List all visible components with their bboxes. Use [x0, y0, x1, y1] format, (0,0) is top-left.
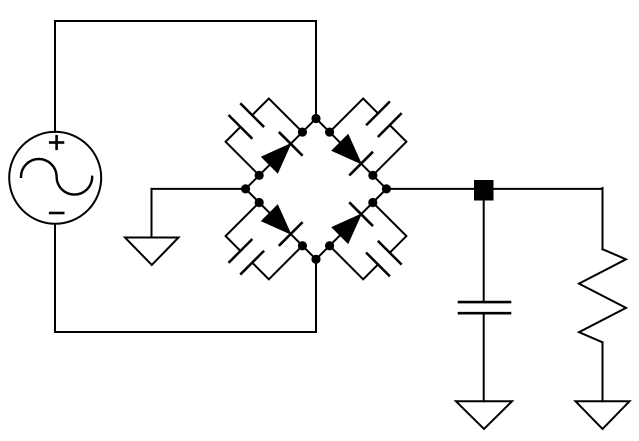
V1 plus polarity mark	[50, 136, 63, 149]
ground: AC return	[125, 238, 179, 266]
junction dot on arm of D3 (near 259.18,202.48)	[255, 198, 264, 207]
wire: filter capacitor to ground	[483, 313, 485, 401]
wire: C3 branch (parallel with D3)	[226, 202, 303, 279]
wire: bridge right node to output rail	[386, 188, 602, 190]
wire: output rail down right side to resistor	[602, 188, 604, 249]
capacitor C3 (snubber across D3)	[229, 240, 263, 274]
wire: bridge arm for D1	[246, 119, 316, 189]
capacitor C1 (snubber across D1)	[229, 104, 263, 138]
wire: resistor bottom to ground	[602, 342, 604, 401]
junction dot on arm of D4 (near 372.82,202.48)	[368, 198, 377, 207]
AC source V1	[9, 132, 101, 224]
wire: bridge arm for D3	[246, 189, 316, 259]
wire: bridge arm for D4	[316, 189, 386, 259]
capacitor C2 (snubber across D2)	[367, 102, 401, 136]
ground: under filter capacitor	[456, 401, 512, 429]
wire: bridge arm for D2	[316, 119, 386, 189]
junction dot on arm of D2 (near 329.58,132.08)	[325, 127, 334, 136]
node: DC output junction (square)	[474, 180, 494, 201]
capacitor C5 (output filter)	[459, 302, 510, 313]
wire: C1 branch (parallel with D1)	[226, 98, 303, 175]
wire: top rail to bridge	[55, 20, 316, 22]
junction dot on arm of D4 (near 329.58,245.72)	[325, 241, 334, 250]
wire: down into bridge top node	[315, 21, 317, 119]
wire: C4 branch (parallel with D4)	[330, 202, 407, 279]
V1 minus polarity mark	[50, 212, 63, 215]
wire: C2 branch (parallel with D2)	[330, 98, 407, 175]
capacitor C4 (snubber across D4)	[367, 242, 401, 276]
wire: output node down to filter capacitor	[483, 200, 485, 302]
junction dot on arm of D3 (near 302.42,245.72)	[298, 241, 307, 250]
resistor R1 (load)	[579, 249, 626, 342]
diode D2	[332, 135, 372, 175]
wire: from AC source + terminal up	[54, 21, 56, 132]
node: bridge bottom vertex (AC input 2)	[311, 255, 320, 264]
ground: under load resistor R1	[576, 401, 630, 429]
node: bridge top vertex (AC input 1)	[311, 114, 320, 123]
junction dot on arm of D1 (near 302.42,132.08)	[298, 127, 307, 136]
diode D4	[332, 203, 372, 243]
wire: up into bridge bottom node	[315, 259, 317, 332]
wire: bottom rail to bridge	[55, 331, 316, 333]
diode D1	[262, 133, 302, 173]
junction dot on arm of D1 (near 259.18,175.32)	[255, 171, 264, 180]
diode D3	[262, 205, 302, 245]
node: bridge left vertex (return)	[241, 184, 250, 193]
junction dot on arm of D2 (near 372.82,175.32)	[368, 171, 377, 180]
wire: from AC source - terminal down	[54, 224, 56, 332]
node: bridge right vertex (DC +)	[382, 184, 391, 193]
wire: bridge left node to ground drop	[152, 189, 246, 238]
